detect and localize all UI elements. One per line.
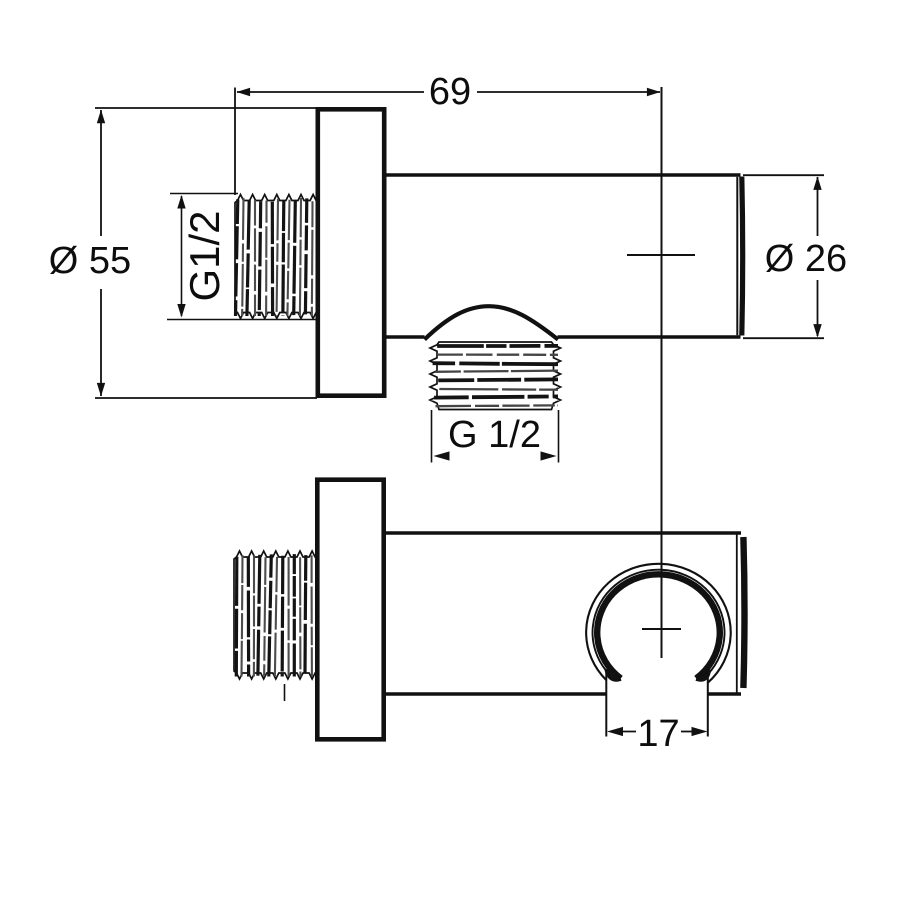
holder ring outer arc	[586, 564, 731, 683]
dimension G 1/2 outlet extension lines	[431, 410, 433, 463]
center cross bottom view	[642, 628, 681, 630]
holder ring left end curl	[607, 669, 621, 679]
small centerline tick below thread	[284, 684, 286, 701]
svg-text:17: 17	[637, 713, 679, 755]
svg-text:G1/2: G1/2	[181, 210, 228, 301]
inlet thread G1/2 top view	[235, 195, 318, 319]
dimension D55 line	[100, 110, 102, 236]
body end inner line bottom view	[736, 535, 738, 693]
wall flange disc bottom view	[317, 480, 383, 740]
body bottom view	[384, 531, 741, 535]
dimension 17 line	[619, 731, 636, 733]
body end cap bottom view	[743, 537, 744, 688]
svg-text:Ø 55: Ø 55	[49, 240, 131, 282]
dimension D26 line	[817, 177, 819, 236]
inlet thread bottom view	[234, 551, 317, 679]
outlet thread G 1/2 (vertical)	[430, 342, 561, 410]
cylinder end inner line	[736, 177, 738, 335]
dimension G 1/2 outlet line	[445, 455, 449, 457]
dimension G1/2 left line	[181, 196, 183, 316]
center cross tick top view	[627, 254, 695, 256]
dimension G1/2 left ticks	[170, 193, 238, 195]
dimension 69 line	[237, 91, 424, 93]
holder opening left wall	[605, 673, 607, 737]
svg-text:69: 69	[429, 71, 471, 113]
outlet dome boss	[425, 306, 559, 339]
holder ring inner thick arc	[597, 574, 720, 678]
cylinder end cap arc	[739, 177, 745, 336]
dimension D55 ticks	[95, 107, 317, 109]
svg-text:G 1/2: G 1/2	[448, 414, 541, 456]
holder opening right wall	[707, 671, 709, 737]
wall flange disc top view	[318, 109, 384, 395]
centerline vertical through both views	[661, 87, 663, 658]
holder ring right end curl	[696, 670, 708, 680]
svg-text:Ø 26: Ø 26	[765, 238, 847, 280]
dimension D26 ticks	[743, 174, 824, 176]
cylinder body top view	[384, 173, 741, 177]
holder ring middle arc	[593, 570, 725, 675]
dimension 69 extension line	[234, 88, 236, 196]
